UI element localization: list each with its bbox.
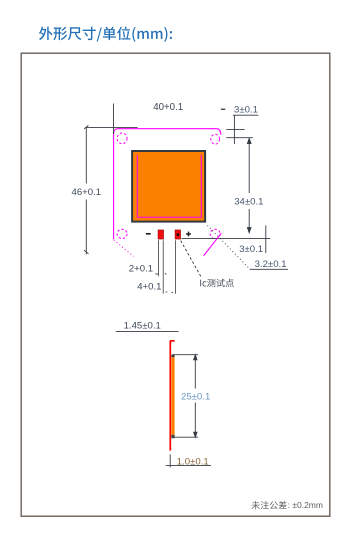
dim 3±0.1 bottom-right: extension line <box>265 225 267 253</box>
plate break line (dotted diagonal) <box>114 240 134 257</box>
side view dim 1.45±0.1: underline <box>116 330 179 332</box>
dim 4+0.1: arrow marks <box>166 291 173 294</box>
dim 40+0.1: left extension line <box>113 104 115 135</box>
dim 46+0.1: top extension line <box>86 127 138 129</box>
side view emitter strip dark tips <box>171 355 174 438</box>
svg-text:: ±0.2mm: : ±0.2mm <box>288 500 323 510</box>
svg-text:46+0.1: 46+0.1 <box>72 187 102 198</box>
dim 3±0.1 top-right: leader and ticks <box>226 115 258 144</box>
polarity minus sign <box>146 233 151 235</box>
label Ic测试点 <box>200 279 234 287</box>
dim 46+0.1: dimension line <box>84 125 89 254</box>
magenta leader to bottom-right hole <box>204 233 222 256</box>
svg-text:40+0.1: 40+0.1 <box>153 102 183 113</box>
svg-text:3±0.1: 3±0.1 <box>234 105 258 116</box>
plate outline: top-right corner stub <box>217 129 221 135</box>
side view substrate (red line) <box>170 341 174 451</box>
Ic test point dot on positive pad <box>177 233 180 236</box>
mounting hole bottom-left <box>117 229 127 238</box>
svg-text:34±0.1: 34±0.1 <box>234 196 263 207</box>
svg-text:3.2±0.1: 3.2±0.1 <box>255 259 287 270</box>
side view emitter strip (orange) <box>171 357 174 436</box>
pad extension lines <box>159 240 176 294</box>
tolerance note 未注公差 <box>252 501 287 509</box>
svg-text:1.0±0.1: 1.0±0.1 <box>177 456 209 467</box>
dim 34±0.1: dimension line with arrows <box>247 138 251 233</box>
dim 3.2±0.1 hole: underline <box>250 268 288 270</box>
LED emitting surface (orange square) <box>132 151 205 222</box>
side view dim 25±0.1: dimension line with arrows <box>194 355 197 438</box>
leader to Ic test point (dashed) <box>181 241 202 278</box>
solder pad positive <box>175 230 181 239</box>
side view dim 25±0.1: extension lines <box>172 355 198 438</box>
svg-text:1.45±0.1: 1.45±0.1 <box>124 321 161 332</box>
plate outline: top edge <box>118 128 217 130</box>
emitter inner magenta edge <box>137 155 201 218</box>
mounting hole top-left <box>117 133 127 144</box>
svg-text:25±0.1: 25±0.1 <box>181 391 210 402</box>
dim 40+0.1: right tick (minus mark) <box>221 109 225 110</box>
mounting hole top-right <box>211 134 220 144</box>
svg-text:4+0.1: 4+0.1 <box>137 281 161 292</box>
dim 2+0.1: arrow marks <box>155 273 166 274</box>
drawing sheet frame <box>21 53 330 516</box>
svg-text:3±0.1: 3±0.1 <box>239 244 263 255</box>
svg-text:2+0.1: 2+0.1 <box>129 264 153 275</box>
plate outline: top-left corner and left edge <box>114 129 118 240</box>
side view dim 1.0±0.1: leader cross <box>166 454 211 467</box>
solder pad negative <box>158 230 164 239</box>
mounting hole bottom-right <box>210 229 220 238</box>
title 外形尺寸/单位(mm): <box>39 27 172 42</box>
dim 3.2±0.1 hole: dotted leader <box>207 225 250 269</box>
pad reference line <box>182 237 271 239</box>
polarity plus sign <box>186 232 191 237</box>
